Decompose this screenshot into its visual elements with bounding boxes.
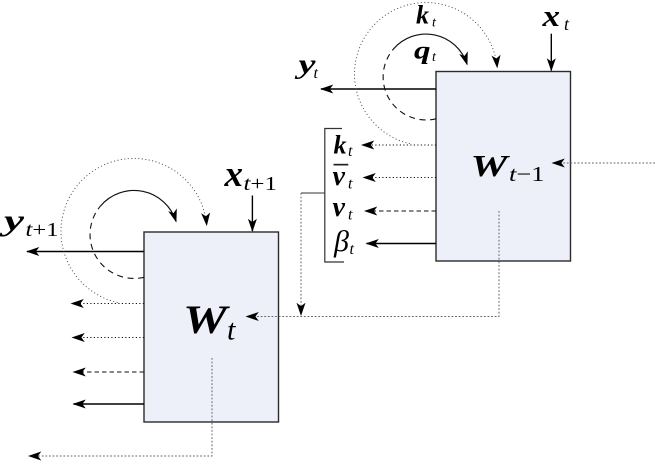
svg-text:x: x (541, 0, 560, 33)
q_t feedback arc (inner, dashed+solid) on W_t-1 (383, 34, 467, 120)
svg-text:k: k (416, 1, 429, 30)
W_t output arrow 3 (dashed) (74, 371, 145, 373)
feedback arc (inner, dashed+solid) on W_t (90, 206, 144, 278)
svg-text:t: t (432, 50, 437, 65)
input x_t+1 (224, 154, 278, 231)
svg-text:t: t (432, 16, 437, 31)
svg-text:v: v (333, 192, 346, 223)
input x_t (541, 0, 570, 71)
svg-text:t: t (350, 241, 355, 258)
svg-text:t: t (348, 143, 353, 160)
svg-text:y: y (0, 204, 25, 237)
output v_t (333, 192, 437, 224)
svg-text:t: t (348, 207, 353, 224)
wire: input into W_t-1 from right edge (553, 162, 655, 164)
W_t output arrow 4 (solid) (74, 403, 145, 405)
svg-text:β: β (333, 225, 349, 258)
svg-text:k: k (334, 130, 347, 159)
svg-text:W: W (183, 297, 230, 342)
svg-text:x: x (224, 154, 244, 195)
box W_t (144, 232, 279, 422)
svg-text:t: t (348, 176, 353, 193)
svg-text:t: t (227, 314, 236, 347)
svg-text:t+1: t+1 (244, 173, 278, 195)
box W_t-1 (436, 72, 571, 262)
output y_t (294, 49, 436, 89)
svg-text:t: t (564, 14, 570, 34)
bracket for outputs (325, 129, 344, 263)
svg-text:q: q (414, 37, 431, 64)
wire: W_t-1 recurrence into W_t (247, 211, 500, 317)
svg-text:t−1: t−1 (509, 162, 545, 186)
output beta_t (333, 225, 436, 258)
svg-text:t: t (314, 65, 319, 82)
svg-text:t+1: t+1 (26, 219, 59, 241)
wire: bracket connector down to recurrence wire (301, 193, 325, 315)
k_t feedback arc (outer, dotted) on W_t-1 (355, 1, 498, 144)
feedback arc (outer, dotted) on W_t (61, 158, 207, 302)
output k_t (334, 130, 437, 160)
W_t output arrow 1 (dotted) (72, 303, 145, 305)
svg-text:W: W (471, 148, 511, 183)
output y_t+1 (0, 204, 144, 252)
wire: W_t forward recurrence to bottom left (29, 358, 212, 456)
output vbar_t (333, 161, 437, 193)
W_t output arrow 2 (dotted) (73, 337, 145, 339)
